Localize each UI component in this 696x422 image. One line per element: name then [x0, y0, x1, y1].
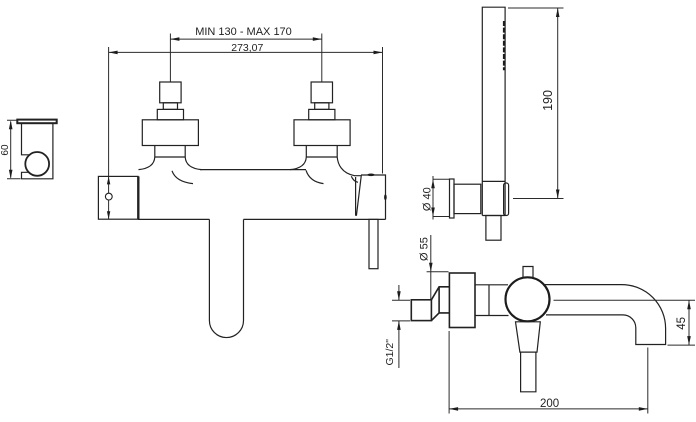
dimension G1/2: [392, 285, 410, 368]
diverter pull rod: [369, 219, 378, 268]
holder wall plate: [17, 120, 56, 124]
holder body outline: [22, 123, 53, 179]
body top line: [200, 170, 361, 176]
svg-text:60: 60: [0, 144, 11, 156]
right valve flange: [294, 120, 350, 146]
hand shower wand: [482, 7, 505, 215]
mixer ball body: [506, 277, 550, 321]
lever tube: [521, 352, 536, 392]
fillet arc at end block: [351, 176, 358, 182]
left valve centerline extension: [169, 34, 171, 82]
dimension 60 arrows: [9, 120, 13, 129]
left valve flange: [142, 120, 198, 146]
shower inlet connector: [486, 216, 501, 241]
dimension 60 line: [7, 120, 21, 179]
dimension Ø55 leader: [427, 235, 449, 320]
right extension line: [382, 47, 384, 174]
G1/2 nipple: [411, 300, 431, 321]
left valve knob: [160, 82, 181, 103]
svg-text:Ø 55: Ø 55: [419, 237, 431, 261]
right valve knob: [311, 82, 332, 103]
holder clamp strip: [504, 183, 509, 216]
spout (front view, U shape): [209, 219, 243, 337]
spout side profile: [544, 285, 666, 345]
left valve collar: [157, 109, 183, 119]
svg-text:200: 200: [540, 398, 559, 410]
wall flange disc: [449, 273, 475, 328]
dimension 190: [508, 8, 564, 199]
right valve neck: [306, 146, 337, 158]
body tube: [475, 285, 509, 316]
end block (diverter housing) right end: [356, 175, 386, 219]
internal run-out arc under right valve: [306, 170, 324, 183]
wall plate left end: [98, 176, 138, 219]
dimension 200: [449, 331, 648, 414]
joint mark on block right edge: [384, 194, 387, 200]
svg-text:Ø 40: Ø 40: [422, 187, 434, 211]
right valve flare curves: [290, 157, 355, 176]
right valve collar: [309, 109, 335, 119]
joint mark on block top: [367, 174, 374, 177]
left valve neck: [155, 146, 185, 158]
wall plate thick right edge: [137, 176, 139, 219]
handle stem on top: [523, 267, 533, 279]
holder wall flange: [450, 179, 455, 218]
spray face dashed band: [503, 21, 506, 70]
svg-text:MIN 130 - MAX 170: MIN 130 - MAX 170: [195, 26, 292, 38]
right valve stem: [315, 103, 329, 110]
shower wand cross-section circle: [25, 152, 49, 176]
spout mid line / 45 extension: [554, 299, 696, 301]
svg-text:190: 190: [541, 90, 555, 111]
dimension Ø40: [433, 176, 449, 220]
holder arm: [454, 184, 481, 213]
svg-text:G1/2": G1/2": [384, 339, 396, 366]
svg-text:45: 45: [676, 317, 688, 330]
inlet hole on wall plate: [105, 193, 112, 200]
internal run-out arc under left valve: [172, 171, 193, 184]
right valve centerline extension: [321, 34, 323, 82]
left valve stem: [163, 103, 177, 110]
dimension 273,07 line: [109, 51, 383, 53]
dimension 45: [668, 300, 696, 345]
cone adapter: [431, 287, 449, 321]
left extension line through wall plate: [108, 47, 110, 219]
body bottom line: [138, 218, 385, 220]
dimension MIN/MAX line: [170, 38, 321, 40]
left valve flare curves: [139, 157, 202, 170]
lever cone below body: [516, 322, 541, 352]
